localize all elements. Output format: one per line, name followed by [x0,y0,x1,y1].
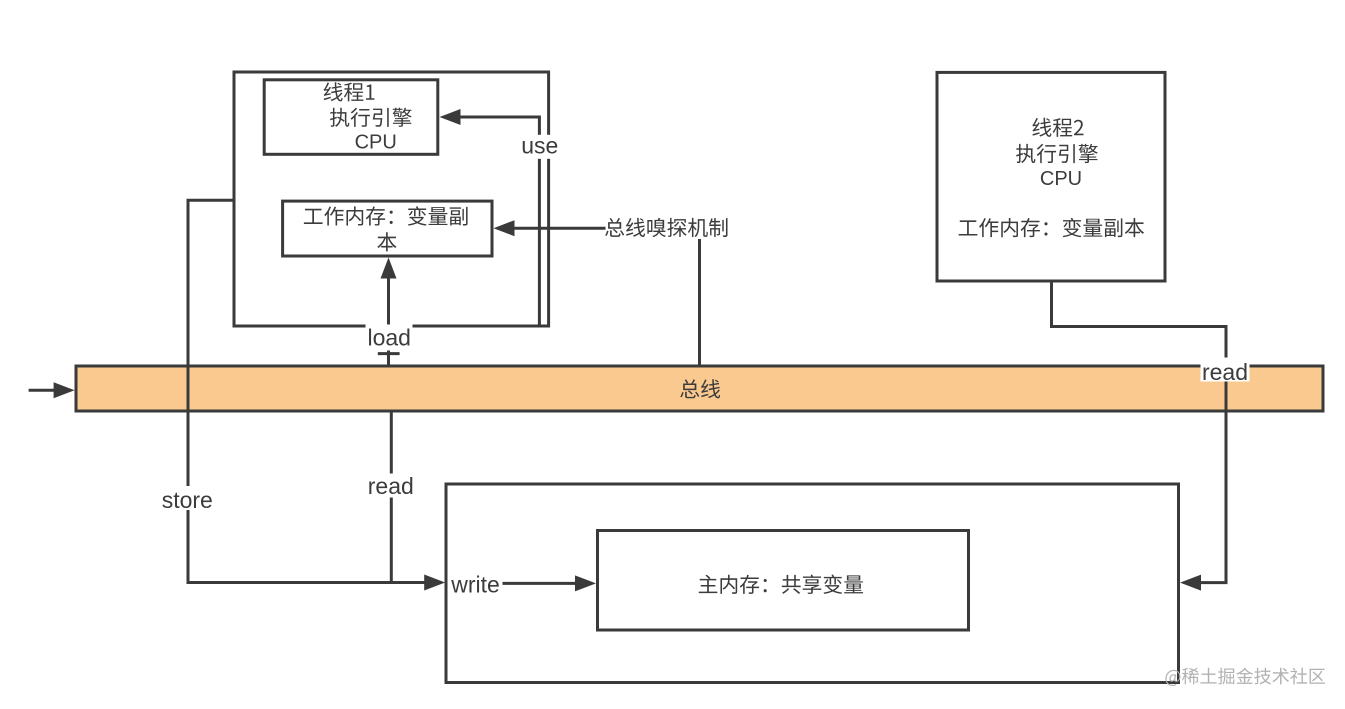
svg-text:store: store [162,487,213,513]
wire use (vertical+horizontal) [458,117,539,326]
box 主内存：共享变量 [598,531,969,631]
text 工作内存：变量副 (box2 line1) [304,206,468,225]
arrowhead load -> box2 [381,258,397,279]
wire write arrow [503,582,578,585]
svg-text:read: read [368,473,414,499]
arrowhead write -> 主内存 box [575,575,596,591]
tick load source [378,352,400,355]
label bg read-left [366,474,416,498]
wire load vertical [387,278,390,365]
box main memory outer [446,484,1179,683]
svg-text:read: read [1202,359,1248,385]
arrowhead store/read -> main memory box [424,575,445,591]
text 本 (box2 line2) [377,232,396,251]
label bg read-right [1201,358,1250,382]
text 执行引擎 (box1 line2) [330,108,412,127]
text 总线嗅探机制 [605,218,727,237]
watermark @稀土掘金技术社区 [1165,668,1325,686]
svg-text:use: use [521,133,558,159]
arrow into bus (left) [29,389,55,392]
text 总线 (bus label) [680,379,720,398]
box 工作内存：变量副本 (thread1) [283,201,492,256]
svg-text:write: write [450,572,500,598]
svg-text:load: load [367,325,410,351]
wire bus-sniff horizontal [512,227,606,230]
text 主内存：共享变量 [699,575,863,594]
arrowhead sniff -> working memory [494,220,515,236]
label bg store [159,486,216,510]
svg-text:CPU: CPU [1040,168,1082,190]
arrowhead use -> CPU box [440,109,461,125]
text 工作内存：变量副本 (thread2) [959,218,1144,237]
bus bar 总线 [76,366,1323,411]
wire store path [188,200,425,582]
svg-text:CPU: CPU [355,131,397,153]
arrowhead read-right -> main memory box [1180,575,1201,591]
box 线程1/执行引擎/CPU [264,80,438,155]
wire read-right path [1052,281,1227,583]
label bg load [366,325,413,351]
wire read-left vertical [390,411,393,582]
wire sniff drop to bus [698,239,701,365]
box thread2 线程2 [937,72,1165,281]
text 线程2 (thread2 line1) [1032,118,1083,137]
text 线程1 (box1 line1) [324,82,375,101]
box thread1 outer container [234,72,549,326]
label bg use [519,135,560,159]
text 执行引擎 (thread2 line2) [1016,144,1098,163]
